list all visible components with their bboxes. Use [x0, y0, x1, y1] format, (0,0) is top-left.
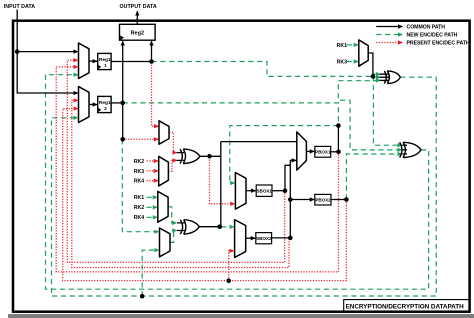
svg-text:PBOX2: PBOX2 [315, 197, 331, 202]
svg-text:RK4: RK4 [134, 215, 144, 221]
svg-text:RK2: RK2 [134, 159, 144, 165]
svg-text:RK1: RK1 [337, 43, 347, 49]
svg-text:RK2: RK2 [134, 205, 144, 211]
svg-text:RK4: RK4 [134, 179, 144, 185]
svg-text:Reg1: Reg1 [99, 100, 111, 106]
svg-text:RK1: RK1 [134, 195, 144, 201]
svg-text:PRESENT ENC/DEC PATH: PRESENT ENC/DEC PATH [407, 41, 470, 47]
svg-text:Reg1: Reg1 [99, 57, 111, 63]
svg-text:INPUT DATA: INPUT DATA [4, 4, 35, 10]
svg-text:SBOX2: SBOX2 [256, 236, 272, 241]
svg-text:Reg2: Reg2 [131, 30, 144, 36]
svg-text:SBOX1: SBOX1 [257, 189, 273, 194]
svg-text:RK3: RK3 [134, 169, 144, 175]
svg-text:RK3: RK3 [337, 60, 347, 66]
svg-text:PBOX1: PBOX1 [315, 149, 331, 154]
svg-text:ENCRYPTION/DECRYPTION DATAPATH: ENCRYPTION/DECRYPTION DATAPATH [346, 303, 464, 310]
svg-text:OUTPUT DATA: OUTPUT DATA [120, 4, 157, 10]
svg-text:NEW ENC/DEC PATH: NEW ENC/DEC PATH [407, 33, 458, 39]
svg-text:COMMON PATH: COMMON PATH [407, 25, 446, 31]
svg-text:2: 2 [104, 106, 107, 112]
svg-text:1: 1 [104, 63, 107, 69]
